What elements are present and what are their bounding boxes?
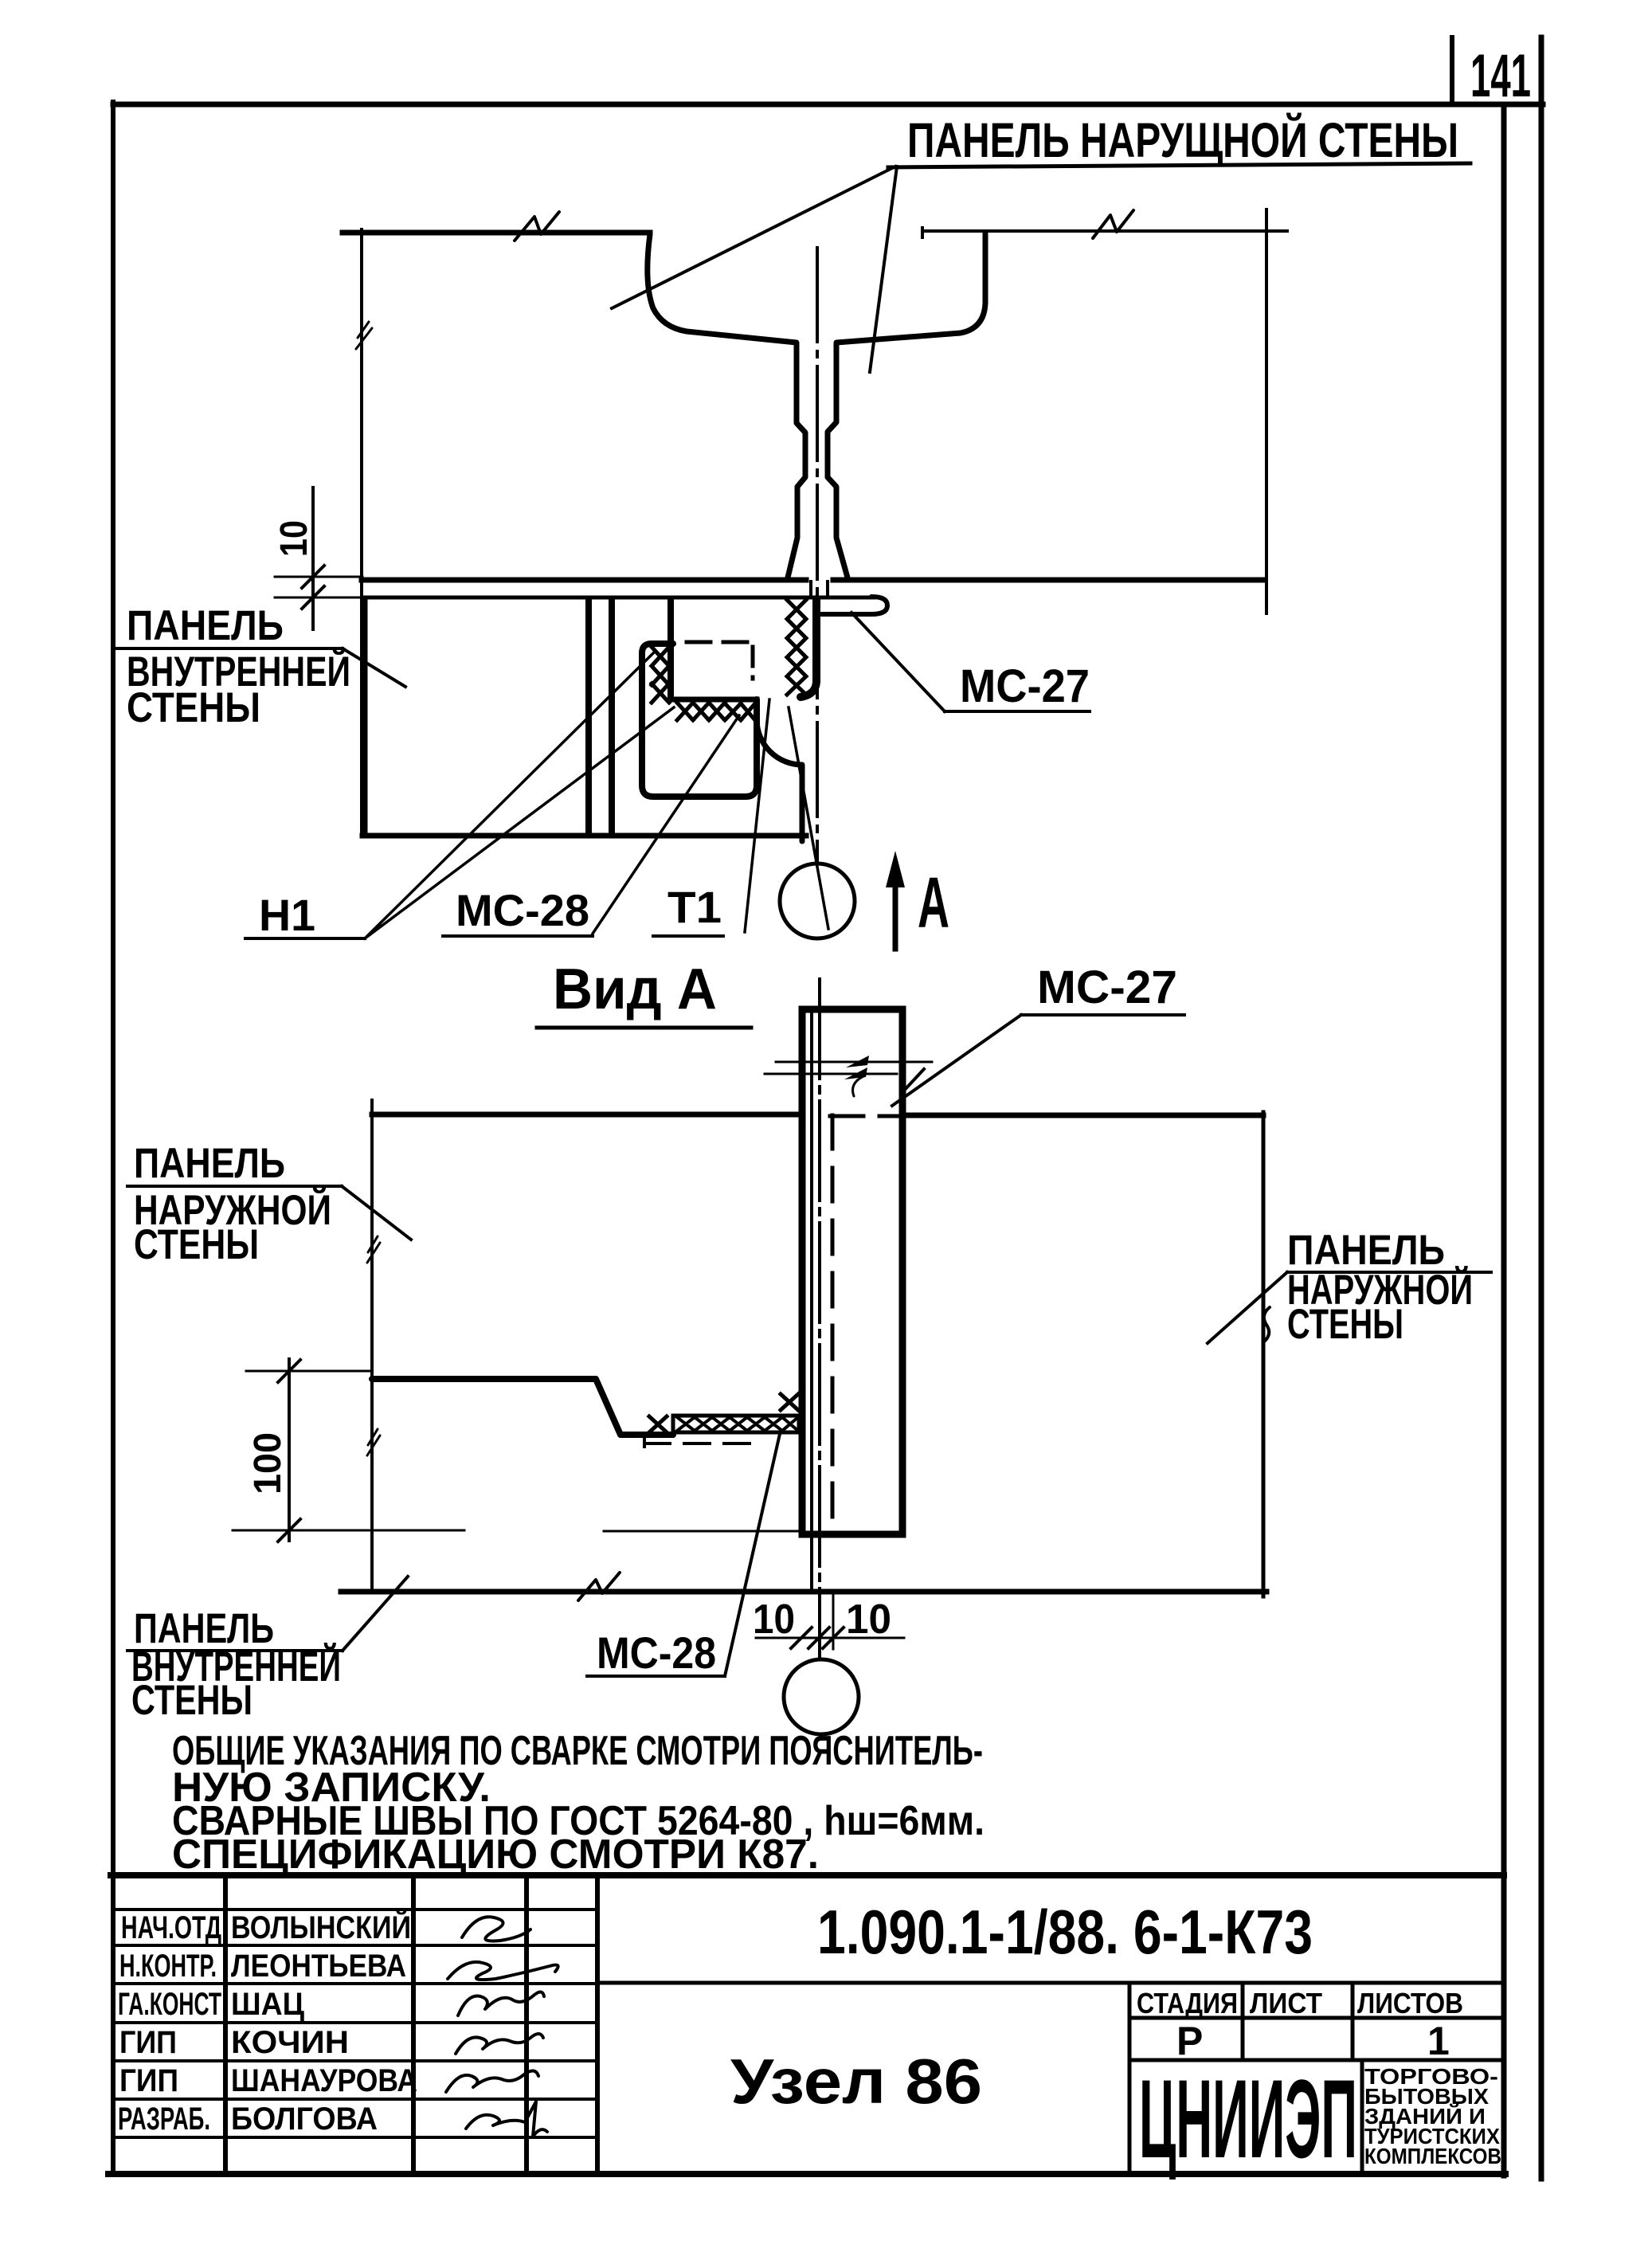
МС-27 plate rounded end and bottom edge: [821, 597, 887, 614]
break mark on right top edge: [1093, 210, 1133, 238]
inner panel joint verticals: [589, 600, 612, 832]
svg-text:ЛЕОНТЬЕВА: ЛЕОНТЬЕВА: [231, 1949, 406, 1984]
label: панель наружной стены (view A left): [127, 1140, 411, 1268]
signature 6: [466, 2102, 547, 2137]
left extension vertical (view A): [370, 1100, 374, 1591]
weld X marks row: [677, 703, 755, 720]
extension line right x1590: [1265, 210, 1268, 613]
panels bottom edge y728: [362, 578, 1265, 583]
МС-27 vertical plate with hook: [801, 599, 816, 697]
joint funnel and channel right wall: [828, 233, 985, 578]
spot weld x above right end: [781, 1394, 798, 1410]
small dimension line 1 with arrow: [776, 1056, 932, 1067]
signature 4: [456, 2034, 543, 2054]
panel top edge left segment (view A): [372, 1112, 799, 1118]
label Н1: [245, 890, 365, 940]
svg-text:Н1: Н1: [259, 890, 315, 940]
svg-text:Узел 86: Узел 86: [730, 2046, 982, 2117]
svg-text:Н.КОНТР.: Н.КОНТР.: [119, 1949, 217, 1984]
leader from top label to joint: [870, 166, 897, 372]
svg-text:ПАНЕЛЬ: ПАНЕЛЬ: [134, 1140, 285, 1187]
row нач.отд волынский: [121, 1909, 411, 1945]
svg-text:МС-27: МС-27: [960, 660, 1090, 712]
outer wall panel top edge left: [343, 230, 650, 236]
row гип шанаурова: [119, 2063, 417, 2098]
leaders from Т1: [745, 699, 828, 932]
row га.конст шац: [118, 1987, 304, 2022]
svg-text:10: 10: [273, 520, 315, 557]
svg-text:ПАНЕЛЬ: ПАНЕЛЬ: [127, 602, 284, 649]
outer wall panel top edge right: [922, 228, 1287, 237]
title block stamp verticals: [1129, 1983, 1362, 2174]
svg-text:ЛИСТ: ЛИСТ: [1250, 1987, 1322, 2019]
label МС-27 (view A): [892, 962, 1184, 1106]
title Вид А: [537, 958, 751, 1028]
break mark on extension line: [356, 322, 372, 349]
panel joint edge line in plate: [810, 1013, 813, 1591]
frame left border: [111, 102, 115, 2174]
svg-text:БОЛГОВА: БОЛГОВА: [231, 2102, 378, 2137]
svg-text:ГИП: ГИП: [119, 2063, 178, 2098]
svg-text:КОЧИН: КОЧИН: [231, 2025, 349, 2060]
label МС-28 (upper): [443, 885, 593, 936]
svg-text:МС-28: МС-28: [456, 885, 589, 935]
panel top edge right segment (view A): [905, 1113, 1263, 1118]
frame inner right border: [1501, 107, 1507, 2176]
joint through slab: [811, 582, 828, 595]
svg-text:Т1: Т1: [667, 882, 722, 932]
weld X marks left column in gasket: [652, 647, 669, 703]
row разраб болгова: [118, 2102, 378, 2137]
title block row lines: [116, 1910, 597, 2137]
label: панель внутренней стены (upper): [115, 602, 405, 731]
gasket box Н1: [642, 644, 757, 797]
row гип кочин: [119, 2025, 349, 2060]
title block bottom border: [108, 2171, 1505, 2177]
small dimension line 2 with arrow: [765, 1067, 897, 1096]
svg-text:1.090.1-1/88. 6-1-К73: 1.090.1-1/88. 6-1-К73: [817, 1897, 1313, 1967]
svg-text:МС-28: МС-28: [597, 1628, 716, 1678]
spot weld x left of bar: [649, 1416, 667, 1432]
svg-text:СТЕНЫ: СТЕНЫ: [134, 1221, 259, 1268]
label: панель наружной стены (view A right): [1208, 1227, 1491, 1348]
joint funnel and channel left wall: [648, 234, 805, 578]
floor line / МС-27 plate top: [365, 596, 874, 600]
label Т1: [653, 882, 723, 936]
weld X fill in МС-28 bar: [677, 1417, 798, 1431]
svg-text:1: 1: [1427, 2019, 1450, 2063]
dimension 10 10 (view A): [753, 1592, 904, 1655]
svg-text:ПАНЕЛЬ НАРУЩНОЙ СТЕНЫ: ПАНЕЛЬ НАРУЩНОЙ СТЕНЫ: [907, 112, 1458, 167]
svg-text:НАЧ.ОТД: НАЧ.ОТД: [121, 1910, 221, 1945]
leader from МС-28: [593, 715, 739, 934]
signature 3: [458, 1992, 544, 2015]
vertical joint axis line: [816, 248, 819, 862]
inner panel edge x842: [667, 600, 674, 696]
svg-text:РАЗРАБ.: РАЗРАБ.: [118, 2102, 210, 2137]
leader fan from Н1: [365, 653, 674, 938]
signature 5: [446, 2070, 538, 2092]
title block top border: [111, 1872, 1504, 1878]
svg-text:СТАДИЯ: СТАДИЯ: [1137, 1987, 1238, 2019]
dimension 100: [233, 1359, 797, 1541]
svg-text:ШАНАУРОВА: ШАНАУРОВА: [231, 2063, 417, 2098]
section circle upper: [780, 864, 855, 938]
leader from top label to left panel: [612, 166, 895, 308]
frame outer right border: [1539, 37, 1544, 2179]
break mark on left top edge: [515, 212, 559, 241]
МС-28 plate bar: [673, 1416, 799, 1432]
svg-text:Вид А: Вид А: [553, 958, 717, 1021]
svg-text:ШАЦ: ШАЦ: [231, 1987, 304, 2022]
svg-text:ВОЛЫНСКИЙ: ВОЛЫНСКИЙ: [231, 1909, 411, 1945]
break mark on bottom edge: [578, 1573, 620, 1600]
signature 1: [462, 1917, 530, 1941]
svg-text:ГА.КОНСТ: ГА.КОНСТ: [118, 1987, 221, 2022]
section circle lower: [784, 1659, 859, 1734]
svg-text:ЦНИИЭП: ЦНИИЭП: [1139, 2056, 1357, 2181]
svg-text:ЛИСТОВ: ЛИСТОВ: [1357, 1987, 1463, 2019]
extension line left x454: [360, 229, 363, 836]
label МС-27 (upper): [851, 613, 1090, 712]
break marks on left extension: [367, 1236, 380, 1455]
hidden dashed edge under bar: [644, 1434, 756, 1447]
label: панель внутренней стены (view A bottom): [127, 1577, 408, 1724]
view direction arrow А: [886, 851, 949, 949]
svg-text:СТЕНЫ: СТЕНЫ: [1287, 1301, 1403, 1348]
joint axis line (view A): [818, 979, 821, 1657]
svg-text:10: 10: [753, 1596, 795, 1643]
svg-text:КОМПЛЕКСОВ: КОМПЛЕКСОВ: [1364, 2144, 1501, 2168]
svg-text:СТЕНЫ: СТЕНЫ: [131, 1677, 252, 1724]
title block right-side dividers: [597, 1983, 1504, 2060]
panels bottom edge (view A): [341, 1589, 1266, 1595]
step line top of lower panel: [372, 1379, 673, 1435]
slash tick at plate right edge: [903, 1069, 924, 1091]
row н.контр леонтьева: [119, 1949, 406, 1984]
weld seam row under gasket: [672, 697, 757, 703]
svg-text:СТЕНЫ: СТЕНЫ: [127, 684, 260, 731]
label: панель наружной стены (top): [888, 112, 1470, 167]
hidden joint edge dashed: [831, 1115, 835, 1526]
svg-text:10: 10: [846, 1596, 891, 1643]
svg-text:ГИП: ГИП: [119, 2025, 177, 2060]
sheet number box line: [1450, 37, 1454, 104]
svg-text:100: 100: [247, 1432, 289, 1494]
panel top edge hidden behind plate: [830, 1114, 897, 1118]
svg-text:СПЕЦИФИКАЦИЮ СМОТРИ К87.: СПЕЦИФИКАЦИЮ СМОТРИ К87.: [172, 1831, 819, 1878]
dimension 10 upper left: [273, 488, 362, 629]
break squiggle on right edge: [1263, 1307, 1270, 1342]
label МС-28 (view A): [587, 1434, 780, 1678]
svg-text:МС-27: МС-27: [1037, 962, 1177, 1013]
weld X column at МС-27: [787, 600, 806, 695]
title block column lines: [225, 1875, 597, 2174]
inner wall panel left edge and bottom: [362, 598, 806, 836]
frame top border: [113, 102, 1543, 108]
svg-text:141: 141: [1470, 42, 1531, 110]
МС-27 plate rectangle (view A): [802, 1009, 902, 1534]
svg-text:А: А: [918, 864, 949, 943]
right panel right edge (view A): [1262, 1112, 1266, 1596]
signature 2: [448, 1962, 558, 1980]
panel corner arc and step: [757, 719, 802, 841]
gasket hidden dashed edges: [687, 640, 754, 644]
